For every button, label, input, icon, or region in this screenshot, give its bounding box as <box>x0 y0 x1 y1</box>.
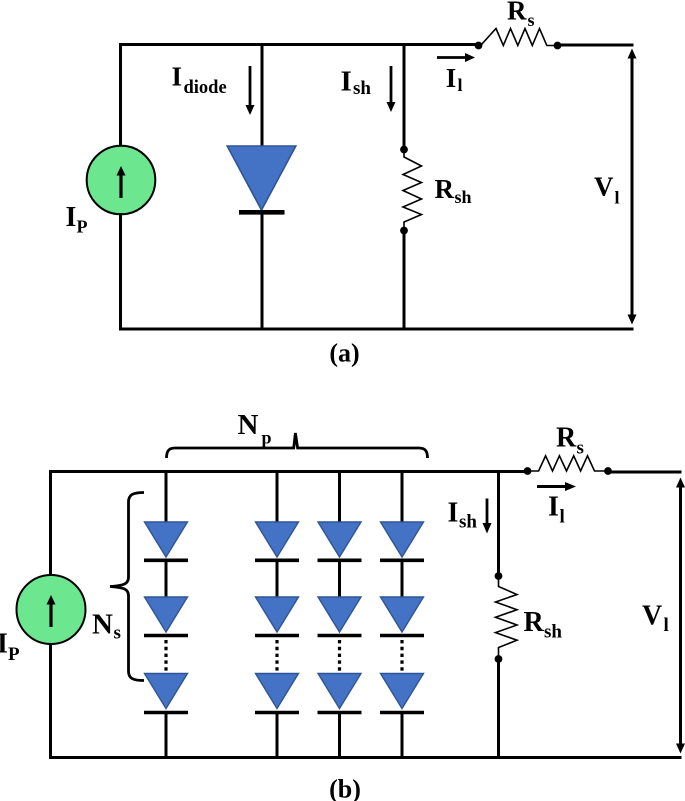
svg-text:R: R <box>507 0 527 26</box>
wire: col3 top <box>338 470 341 524</box>
node bottom of Rsh (b) <box>495 655 503 663</box>
svg-text:sh: sh <box>353 78 371 99</box>
svg-text:diode: diode <box>184 78 227 98</box>
node right of Rs (b) <box>604 467 612 475</box>
svg-text:I: I <box>172 62 183 92</box>
diode column 4 (b) <box>380 470 424 759</box>
svg-text:N: N <box>92 609 113 641</box>
wire: bottom wire (b) <box>49 756 682 759</box>
svg-text:I: I <box>0 629 8 660</box>
resistor R_sh (a) <box>403 150 422 231</box>
svg-text:s: s <box>114 623 121 644</box>
diode D21 <box>256 522 299 557</box>
wire: col1 bottom <box>165 713 168 760</box>
diode D31 <box>318 522 361 557</box>
wire: shunt branch bottom (a) <box>403 231 406 331</box>
label I_P (b) <box>0 629 20 666</box>
label I_l with arrow (a) <box>437 53 475 95</box>
label R_sh (a) <box>435 174 472 207</box>
resistor R_s (a) <box>479 29 558 46</box>
wire: col4 mid <box>401 560 404 599</box>
diode column 2 (b) <box>255 470 299 759</box>
label I_sh with arrow (b) <box>448 498 492 534</box>
diode D33 <box>318 674 361 709</box>
svg-text:(a): (a) <box>329 339 359 368</box>
label R_sh (b) <box>524 607 563 643</box>
svg-text:N: N <box>238 409 259 441</box>
wire: col4 dotted continuation <box>400 640 403 671</box>
label R_s (b) <box>556 423 584 459</box>
wire: bottom wire (a) <box>119 328 634 331</box>
wire: col1 top <box>165 470 168 524</box>
wire: col4 bottom <box>401 713 404 760</box>
svg-text:P: P <box>8 644 20 665</box>
node top of Rsh (a) <box>400 146 408 154</box>
node left of Rs (a) <box>475 42 483 50</box>
diode D11 <box>145 522 188 557</box>
wire: col2 dotted continuation <box>275 640 278 671</box>
svg-text:V: V <box>642 601 662 632</box>
svg-text:s: s <box>577 438 584 459</box>
V_l double arrow (b) <box>676 478 685 754</box>
svg-text:R: R <box>524 607 545 638</box>
wire: top wire right segment (b) <box>608 471 682 474</box>
svg-text:l: l <box>615 188 620 208</box>
wire: col2 top <box>276 470 279 524</box>
label I_diode with arrow (a) <box>172 62 255 116</box>
svg-text:P: P <box>77 217 88 237</box>
svg-text:I: I <box>446 63 457 93</box>
wire: col3 mid <box>338 560 341 599</box>
wire: col1 mid <box>165 560 168 599</box>
wire: shunt branch top (b) <box>497 470 500 576</box>
wire: left vertical upper (a) <box>119 43 122 147</box>
svg-text:I: I <box>548 492 559 523</box>
svg-text:p: p <box>262 428 272 448</box>
diode D43 <box>381 674 424 709</box>
svg-text:l: l <box>664 615 669 636</box>
label I_sh with arrow (a) <box>341 66 396 113</box>
node bottom of Rsh (a) <box>400 227 408 235</box>
node left of Rs (b) <box>524 467 532 475</box>
svg-text:l: l <box>458 75 463 95</box>
wire: top wire left segment (b) <box>49 470 527 473</box>
wire: top wire left segment (a) <box>119 43 478 46</box>
wire: shunt branch top (a) <box>403 43 406 150</box>
svg-text:l: l <box>560 507 565 528</box>
svg-text:(b): (b) <box>329 775 361 801</box>
wire: col2 bottom <box>276 713 279 760</box>
node right of Rs (a) <box>554 42 562 50</box>
current source I_P (b) <box>17 575 86 644</box>
svg-text:R: R <box>556 423 577 454</box>
diode D1 (a) <box>227 146 296 212</box>
label I_l with arrow (b) <box>537 482 576 528</box>
node top of Rsh (b) <box>495 572 503 580</box>
resistor R_s (b) <box>528 456 609 471</box>
svg-text:s: s <box>528 10 535 30</box>
current source I_P (a) <box>87 146 156 215</box>
label R_s (a) <box>507 0 535 30</box>
brace N_s <box>110 493 144 681</box>
svg-text:I: I <box>341 66 352 98</box>
svg-text:I: I <box>448 498 459 529</box>
svg-text:V: V <box>594 172 614 202</box>
resistor R_sh (b) <box>496 576 518 659</box>
diode D13 <box>145 674 188 709</box>
wire: col1 dotted continuation <box>164 640 167 671</box>
svg-text:I: I <box>66 202 77 233</box>
wire: col4 top <box>401 470 404 524</box>
diode D32 <box>318 597 361 632</box>
label V_l (b) <box>642 601 669 637</box>
wire: col3 bottom <box>338 713 341 760</box>
wire: top wire right segment (a) <box>558 44 634 47</box>
diode column 1 (b) <box>144 470 188 759</box>
wire: left vertical lower (a) <box>119 213 122 331</box>
diode D23 <box>256 674 299 709</box>
svg-text:sh: sh <box>455 187 472 207</box>
label I_P (a) <box>66 202 88 237</box>
label N_p <box>238 409 272 448</box>
svg-text:sh: sh <box>544 622 562 643</box>
V_l double arrow (a) <box>628 49 637 325</box>
wire: diode branch top (a) <box>261 43 264 148</box>
diode D41 <box>381 522 424 557</box>
wire: left vertical lower (b) <box>49 643 52 759</box>
diode D42 <box>381 597 424 632</box>
wire: col2 mid <box>276 560 279 599</box>
label V_l (a) <box>594 172 620 208</box>
diode D22 <box>256 597 299 632</box>
brace N_p <box>167 433 428 458</box>
diode D12 <box>145 597 188 632</box>
diode column 3 (b) <box>318 470 362 759</box>
wire: col3 dotted continuation <box>338 640 341 671</box>
wire: diode branch bottom (a) <box>261 212 264 331</box>
svg-text:R: R <box>435 174 455 204</box>
label N_s <box>92 609 121 644</box>
svg-text:sh: sh <box>459 512 477 533</box>
wire: left vertical upper (b) <box>49 470 52 576</box>
wire: shunt branch bottom (b) <box>497 659 500 759</box>
